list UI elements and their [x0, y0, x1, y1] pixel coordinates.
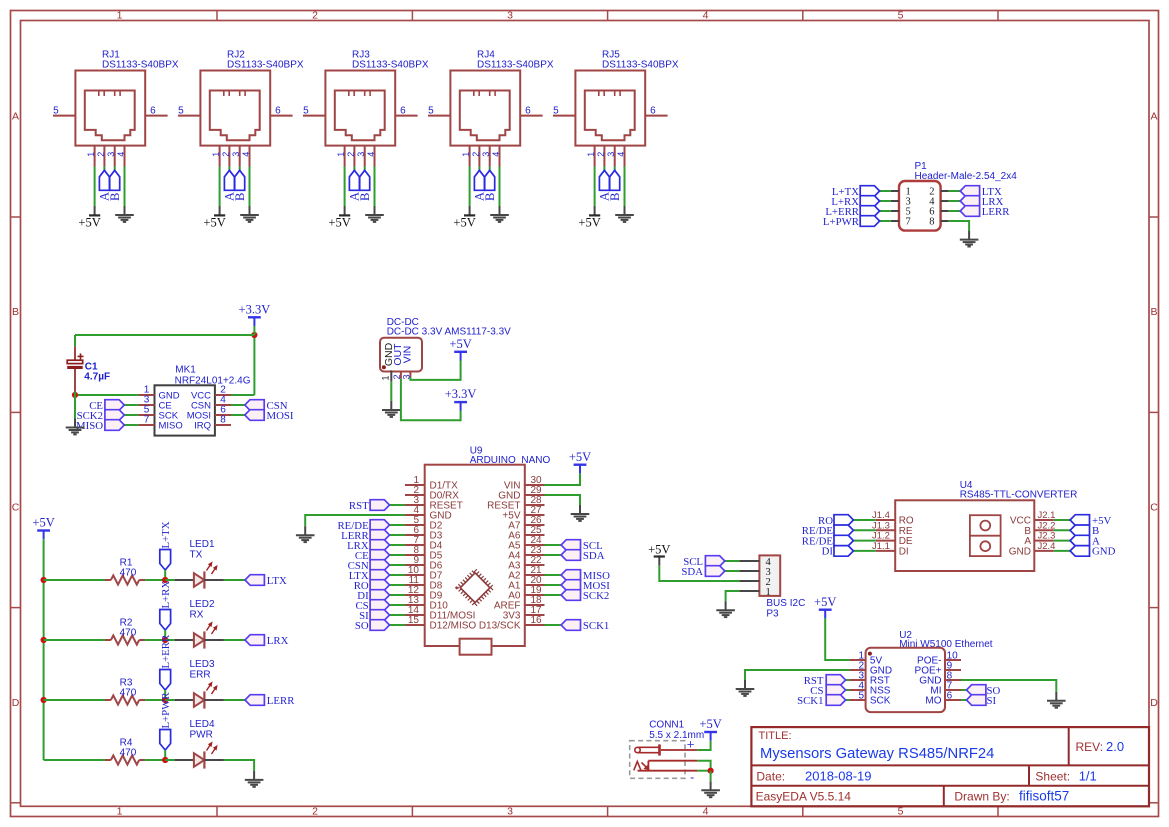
svg-text:DS1133-S40BPX: DS1133-S40BPX	[227, 59, 304, 70]
svg-text:fifisoft57: fifisoft57	[1019, 788, 1069, 803]
svg-text:SDA: SDA	[681, 566, 703, 578]
svg-text:D: D	[1150, 697, 1158, 709]
svg-text:+3.3V: +3.3V	[239, 302, 271, 316]
svg-text:2: 2	[471, 152, 481, 157]
svg-text:L+TX: L+TX	[160, 521, 172, 548]
wire	[74, 335, 76, 346]
wire	[846, 679, 850, 681]
wire	[43, 539, 45, 760]
power +3.3V	[239, 302, 271, 326]
wire	[114, 167, 116, 171]
wire	[745, 670, 850, 680]
net flag CS	[355, 600, 389, 612]
net flag LTX	[245, 575, 287, 587]
svg-text:+5V: +5V	[699, 717, 721, 731]
resistor R1 470	[105, 558, 145, 585]
svg-text:LED2: LED2	[190, 599, 215, 610]
wire	[603, 167, 605, 171]
wire	[75, 394, 138, 396]
svg-text:Drawn By:: Drawn By:	[954, 789, 1009, 803]
svg-text:1: 1	[86, 152, 96, 157]
net flag LRX	[347, 540, 389, 552]
svg-text:SCK: SCK	[870, 696, 891, 707]
svg-text:L+PWR: L+PWR	[160, 692, 172, 729]
svg-text:D13/SCK: D13/SCK	[479, 621, 521, 632]
module U4 RS485-TTL-CONVERTER	[872, 480, 1077, 571]
ground	[382, 410, 401, 417]
svg-text:VIN: VIN	[401, 346, 413, 364]
wire	[124, 167, 126, 207]
wire	[124, 414, 138, 416]
net flag SI	[967, 695, 997, 707]
wire	[401, 379, 461, 421]
wire	[231, 394, 254, 396]
svg-text:A: A	[1150, 111, 1157, 123]
wire	[545, 574, 562, 576]
wire	[165, 699, 174, 701]
wire	[880, 190, 891, 192]
svg-text:SI: SI	[987, 695, 997, 707]
wire	[710, 771, 712, 782]
wire	[224, 639, 245, 641]
svg-text:5.5 x 2.1mm: 5.5 x 2.1mm	[649, 730, 704, 741]
IC U9 ARDUINO_NANO	[405, 446, 550, 655]
svg-text:4: 4	[116, 152, 126, 157]
svg-text:Date:: Date:	[756, 770, 785, 784]
net flag +5V	[1070, 515, 1111, 527]
net flag A	[223, 170, 237, 201]
net flag RE/DE	[337, 520, 389, 532]
connector P1 Header-Male-2.54_2x4	[891, 161, 1018, 231]
svg-text:J2.4: J2.4	[1038, 541, 1056, 552]
wire	[390, 584, 406, 586]
wire	[75, 334, 254, 336]
LED LED4 PWR	[175, 719, 224, 769]
connector CONN1 5.5x2.1mm	[630, 720, 705, 785]
wire	[344, 167, 346, 207]
ground	[490, 206, 509, 222]
svg-text:DI: DI	[822, 546, 834, 558]
net flag CSN	[348, 560, 390, 572]
junction	[41, 697, 47, 703]
wire	[145, 759, 165, 761]
wire	[697, 741, 710, 750]
wire	[390, 554, 406, 556]
svg-text:MISO: MISO	[159, 421, 183, 432]
svg-text:1: 1	[117, 9, 123, 21]
wire	[726, 591, 740, 601]
wire	[305, 515, 405, 526]
wire	[545, 544, 562, 546]
wire	[390, 534, 406, 536]
wire	[410, 361, 460, 380]
wire	[659, 565, 739, 581]
svg-text:2: 2	[221, 152, 231, 157]
power +5V	[78, 206, 100, 229]
wire	[949, 221, 969, 231]
wire	[145, 579, 165, 581]
power +5V	[328, 206, 350, 229]
net flag RE/DE	[802, 535, 854, 547]
ground	[296, 526, 315, 542]
ground	[115, 206, 134, 222]
svg-text:GND: GND	[1092, 546, 1116, 558]
wire	[949, 210, 961, 212]
junction	[708, 768, 714, 774]
svg-text:SCK1: SCK1	[797, 695, 823, 707]
ground	[960, 231, 979, 247]
svg-text:MK1: MK1	[175, 365, 196, 376]
wire	[390, 574, 406, 576]
net flag B	[1070, 525, 1099, 537]
svg-text:4: 4	[703, 9, 709, 21]
net flag B	[108, 170, 122, 201]
wire	[949, 190, 961, 192]
net flag SCK2	[561, 590, 609, 602]
svg-text:4.7µF: 4.7µF	[84, 372, 110, 383]
net flag RST	[349, 500, 390, 512]
svg-text:5: 5	[303, 105, 309, 116]
power +3.3V	[445, 387, 477, 411]
wire	[228, 167, 230, 171]
wire	[390, 370, 392, 381]
wire	[880, 210, 891, 212]
wire	[374, 167, 376, 207]
net flag MOSI	[561, 580, 610, 592]
svg-text:3: 3	[231, 152, 241, 157]
wire	[219, 167, 221, 207]
svg-text:1: 1	[766, 587, 771, 598]
wire	[44, 579, 105, 581]
net flag SI	[359, 610, 389, 622]
svg-text:LED3: LED3	[190, 659, 215, 670]
wire	[165, 639, 174, 641]
power +5V	[578, 206, 600, 229]
wire	[165, 759, 174, 761]
wire	[124, 404, 138, 406]
LED LED1 TX	[175, 539, 224, 589]
svg-text:SDA: SDA	[583, 550, 605, 562]
svg-text:MOSI: MOSI	[267, 410, 294, 422]
capacitor C1 4.7uF	[67, 346, 110, 391]
connector RJ3 DS1133-S40BPX	[303, 50, 429, 167]
net flag RST	[804, 675, 846, 687]
svg-text:3: 3	[481, 152, 491, 157]
connector RJ4 DS1133-S40BPX	[428, 50, 554, 167]
svg-text:REV:: REV:	[1076, 740, 1104, 754]
wire	[545, 554, 562, 556]
connector RJ2 DS1133-S40BPX	[178, 50, 304, 167]
wire	[853, 519, 875, 521]
svg-text:3: 3	[356, 152, 366, 157]
wire	[1054, 540, 1070, 542]
power +5V	[699, 717, 721, 741]
wire	[499, 167, 501, 207]
wire	[1054, 529, 1070, 531]
wire	[390, 604, 406, 606]
wire	[390, 564, 406, 566]
wire	[44, 699, 105, 701]
svg-text:EasyEDA V5.5.14: EasyEDA V5.5.14	[756, 789, 852, 803]
wire	[74, 395, 76, 419]
wire	[853, 529, 875, 531]
svg-text:3: 3	[507, 806, 513, 818]
net flag L+TX	[160, 521, 172, 570]
svg-text:SCK1: SCK1	[583, 620, 609, 632]
svg-text:4: 4	[241, 152, 251, 157]
svg-text:Mysensors Gateway RS485/NRF24: Mysensors Gateway RS485/NRF24	[760, 746, 994, 762]
wire	[853, 550, 875, 552]
svg-text:470: 470	[120, 687, 137, 698]
wire	[253, 326, 255, 335]
svg-text:1: 1	[461, 152, 471, 157]
junction	[72, 392, 78, 398]
wire	[224, 579, 245, 581]
svg-text:5: 5	[898, 9, 904, 21]
net flag L+RX	[831, 196, 879, 208]
svg-text:+: +	[687, 737, 695, 752]
LED LED3 ERR	[175, 659, 224, 709]
net flag LRX	[960, 196, 1003, 208]
svg-text:2.0: 2.0	[1106, 739, 1124, 754]
resistor R3 470	[105, 678, 145, 705]
svg-text:3: 3	[106, 152, 116, 157]
svg-text:TITLE:: TITLE:	[759, 730, 792, 742]
junction	[251, 332, 257, 338]
junction	[162, 577, 168, 583]
net flag LTX	[960, 186, 1002, 198]
net flag CS	[810, 685, 845, 697]
net flag A	[348, 170, 362, 201]
net flag L+PWR	[160, 692, 172, 750]
wire	[164, 690, 166, 700]
title block	[751, 727, 1149, 806]
power +5V	[449, 337, 471, 361]
svg-text:+5V: +5V	[203, 215, 225, 229]
svg-text:P3: P3	[766, 609, 779, 620]
wire	[390, 524, 406, 526]
resistor R4 470	[105, 738, 145, 765]
wire	[124, 424, 138, 426]
ground	[240, 206, 259, 222]
wire	[94, 167, 96, 207]
svg-text:-: -	[690, 770, 694, 785]
svg-text:PWR: PWR	[190, 729, 213, 740]
wire	[390, 614, 406, 616]
net flag GND	[1070, 546, 1115, 558]
svg-text:5: 5	[858, 690, 864, 701]
net flag SDA	[561, 550, 605, 562]
ground	[245, 771, 264, 787]
svg-text:4: 4	[616, 152, 626, 157]
svg-text:1: 1	[211, 152, 221, 157]
wire	[231, 404, 245, 406]
wire	[545, 624, 562, 626]
module MK1 NRF24L01+2.4G	[138, 365, 250, 436]
svg-text:2: 2	[346, 152, 356, 157]
wire	[1054, 550, 1070, 552]
wire	[253, 335, 255, 395]
net flag L+RX	[160, 581, 172, 630]
svg-text:B: B	[12, 306, 19, 318]
svg-text:B: B	[483, 193, 497, 201]
svg-text:1: 1	[336, 152, 346, 157]
svg-text:C: C	[12, 502, 20, 514]
svg-text:SCK2: SCK2	[583, 590, 609, 602]
net flag DI	[822, 546, 854, 558]
net flag B	[233, 170, 247, 201]
svg-text:DS1133-S40BPX: DS1133-S40BPX	[352, 59, 429, 70]
svg-text:SO: SO	[355, 620, 369, 632]
wire	[489, 167, 491, 171]
net flag A	[98, 170, 112, 201]
wire	[239, 167, 241, 171]
svg-text:15: 15	[408, 615, 420, 626]
svg-text:6: 6	[947, 690, 953, 701]
wire	[164, 570, 166, 580]
svg-text:470: 470	[120, 627, 137, 638]
svg-text:LTX: LTX	[267, 575, 287, 587]
connector RJ1 DS1133-S40BPX	[53, 50, 179, 167]
junction	[162, 757, 168, 763]
junction	[162, 697, 168, 703]
net flag MISO	[561, 570, 610, 582]
svg-text:A: A	[12, 111, 19, 123]
svg-text:LERR: LERR	[982, 206, 1010, 218]
net flag A	[473, 170, 487, 201]
wire	[478, 167, 480, 171]
svg-text:D: D	[12, 697, 20, 709]
svg-text:RST: RST	[349, 500, 369, 512]
wire	[825, 618, 849, 660]
svg-text:2: 2	[312, 806, 318, 818]
power +5V	[648, 542, 670, 565]
net flag RO	[818, 515, 853, 527]
svg-text:BUS I2C: BUS I2C	[766, 598, 805, 609]
wire	[165, 579, 174, 581]
net flag L+ERR	[825, 206, 879, 218]
wire	[545, 594, 562, 596]
ground	[365, 206, 384, 222]
wire	[725, 560, 740, 562]
wire	[353, 167, 355, 171]
svg-text:B: B	[108, 193, 122, 201]
svg-text:8: 8	[220, 415, 226, 426]
svg-text:7: 7	[906, 217, 911, 228]
wire	[224, 760, 254, 771]
wire	[249, 167, 251, 207]
svg-text:B: B	[358, 193, 372, 201]
wire	[880, 220, 891, 222]
net flag MISO	[76, 420, 124, 432]
net flag L+TX	[832, 186, 880, 198]
power +5V	[32, 516, 54, 540]
svg-text:5: 5	[428, 105, 434, 116]
net flag B	[608, 170, 622, 201]
wire	[594, 167, 596, 207]
connector RJ5 DS1133-S40BPX	[553, 50, 679, 167]
wire	[624, 167, 626, 207]
wire	[164, 630, 166, 640]
wire	[961, 680, 1056, 692]
module U2 Mini W5100 Ethernet	[850, 630, 993, 712]
svg-text:+5V: +5V	[78, 215, 100, 229]
svg-text:3: 3	[507, 9, 513, 21]
svg-text:1: 1	[381, 375, 391, 380]
wire	[469, 167, 471, 207]
svg-text:MO: MO	[925, 696, 941, 707]
svg-text:5: 5	[898, 806, 904, 818]
svg-text:6: 6	[150, 105, 156, 116]
net flag L+ERR	[160, 634, 172, 690]
junction	[41, 577, 47, 583]
wire	[224, 699, 245, 701]
svg-text:DS1133-S40BPX: DS1133-S40BPX	[602, 59, 679, 70]
junction	[162, 637, 168, 643]
wire	[103, 167, 105, 171]
svg-text:B: B	[233, 193, 247, 201]
svg-text:+5V: +5V	[569, 450, 591, 464]
svg-text:4: 4	[703, 806, 709, 818]
svg-text:LED1: LED1	[190, 539, 215, 550]
svg-text:+5V: +5V	[328, 215, 350, 229]
svg-text:+3.3V: +3.3V	[445, 387, 477, 401]
net flag CE	[89, 400, 124, 412]
wire	[364, 167, 366, 171]
wire	[545, 473, 581, 485]
svg-text:RX: RX	[190, 609, 204, 620]
wire	[74, 392, 76, 396]
net flag MOSI	[245, 410, 294, 422]
svg-text:6: 6	[525, 105, 531, 116]
net flag LRX	[245, 635, 289, 647]
net flag B	[358, 170, 372, 201]
svg-text:+5V: +5V	[814, 595, 836, 609]
net flag CE	[355, 550, 390, 562]
svg-text:+5V: +5V	[453, 215, 475, 229]
svg-text:DS1133-S40BPX: DS1133-S40BPX	[477, 59, 554, 70]
net flag RO	[354, 580, 390, 592]
wire	[846, 699, 850, 701]
svg-text:B: B	[1150, 306, 1157, 318]
ground	[701, 781, 720, 797]
ground	[615, 206, 634, 222]
junction	[41, 637, 47, 643]
power +5V	[453, 206, 475, 229]
svg-text:5: 5	[178, 105, 184, 116]
net flag L+PWR	[823, 216, 880, 228]
net flag SCL	[561, 540, 603, 552]
svg-text:7: 7	[144, 415, 150, 426]
svg-text:8: 8	[929, 217, 934, 228]
wire	[145, 699, 165, 701]
svg-text:5: 5	[53, 105, 59, 116]
wire	[390, 594, 406, 596]
wire	[390, 504, 406, 506]
svg-text:B: B	[608, 193, 622, 201]
svg-text:L+PWR: L+PWR	[823, 216, 860, 228]
svg-text:5: 5	[553, 105, 559, 116]
svg-text:D12/MISO: D12/MISO	[430, 621, 477, 632]
net flag LTX	[349, 570, 390, 582]
net flag SCK1	[797, 695, 846, 707]
svg-text:4: 4	[366, 152, 376, 157]
ground	[736, 680, 755, 696]
svg-text:1: 1	[586, 152, 596, 157]
svg-text:TX: TX	[190, 549, 203, 560]
wire	[961, 699, 967, 701]
svg-text:+5V: +5V	[648, 542, 670, 556]
